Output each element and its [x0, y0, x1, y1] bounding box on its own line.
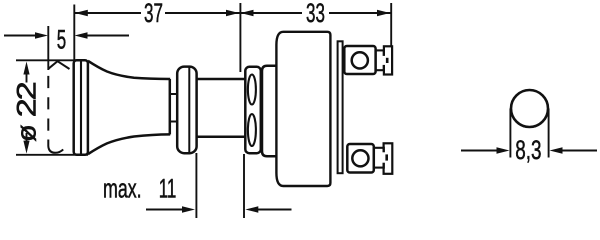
nut facet ellipse upper: [248, 75, 256, 105]
dimension 33: right extension line: [390, 3, 392, 47]
svg-text:5: 5: [57, 24, 66, 54]
mounting hole circle 8.3: [511, 90, 548, 127]
svg-text:2: 2: [11, 81, 41, 100]
svg-text:11: 11: [159, 174, 177, 204]
terminal block bottom: [347, 144, 374, 173]
dimension 8,3: left extension line: [509, 109, 511, 158]
body front flange: [262, 66, 278, 156]
blade notch top (white): [382, 56, 388, 65]
dimension max11: right arrowhead (points left): [245, 206, 258, 212]
shaft collar: [177, 67, 196, 154]
svg-text:max.: max.: [103, 173, 142, 204]
dimension D22: top extension line: [16, 59, 77, 61]
dimension 37: dim line left segment: [74, 12, 141, 14]
dimension 8,3: right extension line: [548, 109, 550, 158]
knob stub top line: [170, 93, 178, 95]
dimension 8,3: left arrowhead (points right): [497, 147, 510, 153]
dimension 33: left arrowhead: [241, 10, 254, 16]
dimension 5: arrow tail left: [4, 35, 36, 37]
dimension 37: right arrowhead: [226, 10, 239, 16]
dimension D22: up arrowhead: [23, 62, 29, 75]
blade nub bottom: [385, 154, 388, 160]
knob trumpet top edge: [88, 61, 170, 79]
svg-text:33: 33: [306, 0, 325, 28]
shaft bottom line: [197, 135, 245, 138]
dimension 37: dim line right segment: [165, 12, 240, 14]
blade notch bottom (white): [382, 152, 388, 162]
dimension max11: left arrowhead (points right): [182, 206, 195, 212]
dimension 5: left extension line: [47, 26, 49, 70]
dimension 5: left arrowhead: [35, 32, 48, 38]
knob neck end face: [169, 79, 172, 134]
dimension max11: right extension line: [243, 154, 245, 218]
svg-text:ø: ø: [11, 124, 41, 142]
knob flange inner line: [80, 61, 82, 154]
dimension 33: right arrowhead: [377, 10, 390, 16]
knob trumpet bottom edge: [88, 134, 170, 154]
svg-text:37: 37: [144, 0, 163, 28]
mounting nut: [245, 67, 260, 153]
dimension D22: down arrow stem: [26, 133, 28, 142]
dimension D22: bottom extension line: [16, 154, 88, 156]
dimension 8,3: right arrowhead (points left): [550, 147, 563, 153]
shaft collar inner line: [188, 67, 190, 152]
dimension 33: dim line right segment: [329, 12, 391, 14]
terminal hole bottom: [352, 150, 368, 166]
dimension 37: left arrowhead: [75, 10, 88, 16]
dimension 8,3: right tail: [562, 150, 598, 152]
terminal tab bottom: [374, 148, 384, 168]
knob front face bottom curl: [48, 140, 63, 153]
knob flange outer: [74, 60, 88, 155]
nut facet ellipse lower: [248, 114, 256, 146]
dimension max11: right dim line: [257, 209, 291, 211]
blade nub top: [386, 58, 389, 63]
dimension 8,3: left tail: [461, 150, 498, 152]
knob front chamfer caret: [48, 61, 69, 69]
rear mounting plate: [338, 41, 343, 173]
terminal blade top: [384, 46, 392, 74]
shaft top line: [197, 78, 245, 81]
knob stub bottom line: [170, 121, 178, 123]
main body: [276, 32, 330, 186]
dimension 5: arrow tail right: [87, 35, 130, 37]
dimension D22: up arrow stem: [26, 74, 28, 83]
terminal block top: [344, 46, 375, 74]
dimension 5: right arrowhead: [75, 32, 88, 38]
terminal hole top: [352, 52, 368, 68]
svg-text:2: 2: [11, 98, 41, 117]
dimension D22: down arrowhead: [23, 141, 29, 154]
terminal tab top: [376, 50, 384, 70]
dimension max11: left dim line: [146, 209, 184, 211]
dimension 33: dim line left segment: [240, 12, 302, 14]
dimension max11: left extension line: [195, 153, 197, 218]
terminal blade bottom: [384, 143, 393, 174]
svg-text:8,3: 8,3: [515, 135, 541, 165]
dimension 37: left extension line: [73, 5, 75, 62]
shared extension line 37/33: [239, 3, 241, 72]
knob front face hidden dashed line: [47, 76, 49, 131]
